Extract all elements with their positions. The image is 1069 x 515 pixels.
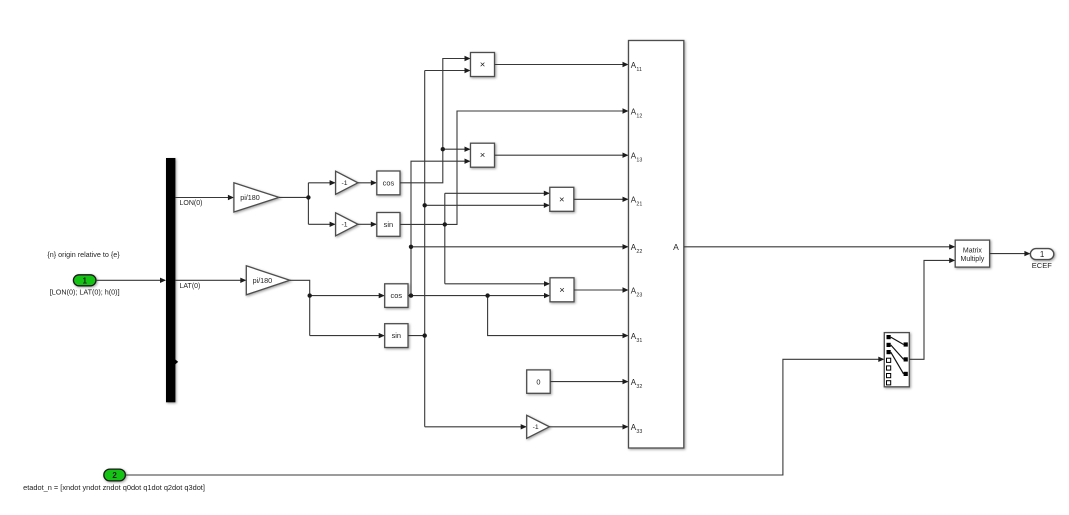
wire gain -1 out to A33 — [549, 426, 627, 428]
svg-text:1: 1 — [1040, 250, 1045, 259]
wire sin(LAT) net: to product1 in2, product3 in2, gain -1 bottom — [408, 71, 549, 427]
outport 1 (oval) — [1030, 249, 1053, 260]
svg-text:pi/180: pi/180 — [240, 193, 260, 202]
gain -1 (lower, before sin) — [336, 213, 358, 236]
svg-text:×: × — [480, 60, 486, 71]
wire demux LAT(0) out to gain pi/180 — [175, 279, 245, 281]
wire -1 to cos — [358, 182, 376, 184]
svg-text:22: 22 — [636, 249, 642, 255]
selector block — [884, 333, 909, 387]
svg-text:[LON(0); LAT(0); h(0)]: [LON(0); LAT(0); h(0)] — [50, 288, 120, 297]
wire -1 to sin — [358, 223, 376, 225]
svg-text:×: × — [480, 150, 486, 161]
wire demux LON(0) out to gain pi/180 — [175, 197, 233, 199]
inport 1 (green oval) — [73, 275, 96, 286]
gain -1 (bottom, before A33) — [527, 415, 550, 438]
product block X2 — [471, 143, 495, 167]
svg-text:11: 11 — [636, 67, 642, 73]
gain -1 (upper, before cos) — [336, 171, 358, 194]
svg-text:etadot_n = [xndot yndot zndot: etadot_n = [xndot yndot zndot q0dot q1do… — [23, 483, 205, 492]
Matrix Multiply block — [955, 240, 989, 267]
wire product3 out to A21 — [574, 198, 628, 200]
wire inport1 to demux — [96, 279, 165, 281]
svg-text:A: A — [673, 242, 679, 252]
svg-text:cos: cos — [391, 291, 403, 300]
svg-text:cos: cos — [383, 178, 395, 187]
svg-text:×: × — [559, 194, 565, 205]
wire Matrix Multiply out to outport — [990, 253, 1030, 255]
svg-text:sin: sin — [392, 331, 401, 340]
svg-text:12: 12 — [636, 113, 642, 119]
svg-text:2: 2 — [112, 471, 117, 480]
svg-text:sin: sin — [384, 220, 393, 229]
svg-text:-1: -1 — [533, 424, 539, 431]
svg-text:0: 0 — [536, 377, 540, 386]
svg-text:32: 32 — [636, 384, 642, 390]
wire A out to Matrix Multiply in1 — [684, 246, 954, 248]
matrix concatenate block A — [629, 41, 684, 449]
wire pi/180 LAT out, splits to cos and sin — [290, 280, 384, 335]
wire cos(-LON) net: to product1 in1 and product2 in1 — [400, 59, 470, 183]
svg-text:ECEF: ECEF — [1032, 261, 1052, 270]
wire selector out to Matrix Multiply in2 — [909, 260, 954, 359]
demux (black bar) — [166, 158, 175, 402]
trig block cos (LON chain) — [377, 171, 400, 195]
selector output squares — [904, 342, 908, 346]
selector input squares (3 filled, 4 hollow) — [887, 335, 891, 339]
wire cos(LAT) net: to product4 in2, product2 in2, A22, A31 — [408, 161, 628, 335]
svg-text:Matrix: Matrix — [963, 248, 983, 255]
svg-text:31: 31 — [636, 338, 642, 344]
svg-text:23: 23 — [636, 292, 642, 298]
svg-text:Multiply: Multiply — [961, 256, 985, 263]
demux unused third output port chevron — [173, 357, 178, 366]
wire pi/180 LON out, splits to both -1 gains — [279, 183, 335, 225]
inport 2 (green oval) — [104, 469, 126, 481]
svg-text:pi/180: pi/180 — [253, 276, 273, 285]
trig block sin (LAT chain) — [385, 324, 408, 348]
svg-text:13: 13 — [636, 158, 642, 164]
selector mapping lines — [891, 337, 904, 374]
wire product4 out to A23 — [574, 289, 628, 291]
product block X4 — [550, 278, 574, 302]
gain pi/180 (LAT) — [246, 266, 289, 295]
wire product2 out to A13 — [495, 154, 628, 156]
wire constant 0 out to A32 — [550, 381, 627, 383]
junction after pi/180 LON — [306, 195, 310, 199]
svg-text:{n} origin relative to {e}: {n} origin relative to {e} — [47, 250, 120, 259]
svg-text:1: 1 — [82, 276, 87, 285]
svg-text:LON(0): LON(0) — [180, 200, 203, 207]
trig block cos (LAT chain) — [385, 284, 408, 308]
wire product1 out to A11 — [495, 64, 628, 66]
svg-text:LAT(0): LAT(0) — [180, 283, 201, 290]
wire inport2 to selector — [125, 359, 883, 475]
svg-text:-1: -1 — [341, 222, 347, 229]
svg-text:-1: -1 — [341, 180, 347, 187]
svg-text:33: 33 — [636, 429, 642, 435]
svg-text:21: 21 — [636, 202, 642, 208]
gain pi/180 (LON) — [234, 183, 279, 212]
product block X1 — [471, 53, 495, 77]
product block X3 — [550, 187, 574, 211]
trig block sin (LON chain) — [377, 213, 400, 237]
wire sin(-LON) net: to A12, product3 in1, product4 in1 — [400, 111, 628, 284]
constant block 0 — [527, 370, 551, 393]
svg-text:×: × — [559, 285, 565, 296]
